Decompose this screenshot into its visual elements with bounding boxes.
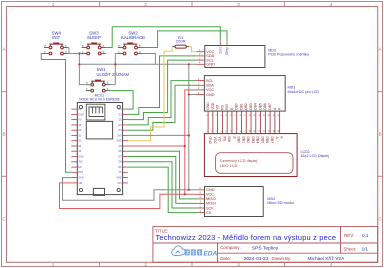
switch SW3 — [82, 43, 106, 55]
svg-text:3: 3 — [237, 2, 240, 7]
svg-text:DB0: DB0 — [235, 103, 239, 110]
EasyEDA logo text — [185, 249, 218, 257]
svg-text:1/1: 1/1 — [362, 247, 369, 252]
switch SW2 — [118, 43, 142, 55]
wire yellow MCU p7 to R1 left — [128, 47, 172, 141]
MD3 left pins — [196, 52, 204, 65]
MD1 left pin names — [206, 79, 215, 97]
svg-text:4: 4 — [330, 2, 333, 7]
MD3 pin names — [206, 50, 215, 67]
wire green MCU p3 to MD3.SCL — [128, 60, 196, 120]
svg-text:2024-01-22: 2024-01-22 — [244, 256, 269, 262]
svg-text:GND: GND — [116, 178, 121, 180]
svg-text:220R: 220R — [176, 39, 186, 44]
svg-text:2: 2 — [144, 2, 147, 7]
MD1 bottom pin names vertical — [206, 102, 282, 110]
wire green SW4.c stub — [41, 54, 71, 173]
MCU right pins — [123, 109, 128, 183]
wire green MCU p11 to MD2.SCK — [128, 162, 197, 208]
frame zone ticks left — [2, 92, 7, 177]
svg-text:SC: SC — [78, 141, 82, 143]
svg-text:3V3: 3V3 — [118, 183, 123, 185]
svg-text:SCK: SCK — [206, 206, 214, 210]
svg-text:DB5: DB5 — [258, 103, 262, 110]
wire gray GND tap to MD1 — [189, 94, 196, 96]
wire red MCU VIN to MD2.VCC — [60, 183, 198, 209]
svg-text:VO: VO — [216, 105, 220, 110]
switch SW4 — [44, 43, 68, 55]
resistor R1 — [172, 45, 189, 48]
svg-text:ULOŽIT ZÁZNAM: ULOŽIT ZÁZNAM — [97, 72, 130, 77]
module MD2 micro SD box — [205, 187, 264, 217]
svg-text:DB2: DB2 — [244, 103, 248, 110]
junction dot VCC bus bottom — [184, 193, 186, 195]
svg-text:KALIBRACE: KALIBRACE — [121, 35, 145, 40]
svg-text:VCC: VCC — [206, 193, 214, 197]
MCU mounting holes — [79, 105, 120, 191]
wire green MCU p10 to MD2.MOSI — [128, 157, 197, 204]
svg-text:DB1: DB1 — [239, 103, 243, 110]
svg-text:GND: GND — [206, 93, 215, 97]
svg-text:DB4: DB4 — [256, 137, 260, 144]
MD1 left pins — [195, 81, 204, 95]
svg-text:VU: VU — [78, 120, 82, 122]
wire gray GND rail under switches — [69, 48, 197, 65]
frame zone numbers top — [52, 2, 333, 7]
svg-text:Technowizz 2023 - Měřidlo fore: Technowizz 2023 - Měřidlo forem na výstu… — [156, 233, 337, 242]
MCU left pins — [71, 109, 77, 183]
svg-text:DB0: DB0 — [237, 137, 241, 144]
svg-text:SCL: SCL — [206, 79, 213, 83]
svg-text:SK: SK — [78, 151, 82, 153]
svg-text:SDA: SDA — [206, 84, 214, 88]
frame zone letters left — [2, 47, 6, 222]
svg-text:GND: GND — [78, 178, 83, 180]
svg-text:GND: GND — [208, 137, 212, 145]
svg-text:Sleep: Sleep — [225, 47, 229, 55]
MCU U1 NodeMCU board outline — [77, 103, 122, 195]
MD1 bottom pin numbers — [207, 113, 281, 116]
svg-text:INIT: INIT — [52, 35, 60, 40]
svg-text:Drawn By:: Drawn By: — [272, 256, 292, 261]
svg-text:SPŠ Teplice: SPŠ Teplice — [252, 244, 279, 251]
wire gray SW2.d drop to rail — [142, 54, 155, 65]
frame zone ticks top — [100, 2, 285, 7]
wire green MCU p12 to MD2.CS — [128, 167, 197, 213]
MCU left pin names — [78, 108, 83, 185]
svg-text:1: 1 — [52, 2, 55, 7]
module MD3 caliper PCB box — [205, 46, 265, 68]
svg-text:Micro SD modul: Micro SD modul — [267, 201, 293, 205]
svg-text:RS: RS — [220, 104, 224, 109]
svg-text:REV:: REV: — [344, 233, 354, 238]
frame zone letters right — [379, 47, 383, 222]
svg-text:Generický LCD displej: Generický LCD displej — [220, 159, 258, 163]
svg-text:DB5: DB5 — [260, 137, 264, 144]
junction dot rail x115 — [114, 63, 116, 65]
svg-text:0.1: 0.1 — [362, 233, 369, 238]
svg-text:Zero: Zero — [218, 47, 222, 54]
svg-text:DB4: DB4 — [254, 103, 258, 110]
junction dot GND bus MCU tap — [188, 134, 190, 136]
MCU right pin names — [116, 109, 122, 185]
svg-text:B: B — [2, 132, 5, 137]
svg-text:RX: RX — [118, 167, 122, 169]
svg-text:EN: EN — [78, 167, 82, 169]
MD2 left pins — [197, 190, 204, 213]
EasyEDA logo cloud — [172, 246, 186, 256]
wire green MCU p4 to MD1.SCL — [128, 81, 195, 125]
svg-text:16X2 LCD: 16X2 LCD — [220, 164, 238, 168]
svg-text:Company:: Company: — [220, 245, 241, 250]
svg-text:GND: GND — [78, 156, 83, 158]
svg-text:VDD: VDD — [211, 102, 215, 110]
title block border — [153, 227, 378, 263]
svg-text:3V3: 3V3 — [78, 162, 83, 164]
svg-text:NODE MCU V0.9 ESP8266: NODE MCU V0.9 ESP8266 — [79, 98, 120, 102]
wire green MCU p5 to MD1.SDA — [128, 85, 195, 130]
svg-text:GND: GND — [206, 63, 215, 67]
svg-text:VCC: VCC — [206, 88, 214, 92]
LCD1 inner screen rounded rect — [216, 153, 293, 174]
junction dot rail x79 — [78, 63, 80, 65]
MD2 pin numbers — [200, 187, 202, 213]
frame zone ticks bottom — [100, 262, 285, 266]
LCD top pin numbers — [207, 129, 281, 132]
svg-text:CS: CS — [206, 211, 212, 215]
wire green MCU p2 to MD3.SDA — [128, 56, 196, 115]
wire red tap MCU p8 to VCC bus — [128, 145, 185, 147]
wire gray tap MCU p6 to GND bus — [128, 134, 189, 136]
svg-text:EDA: EDA — [203, 251, 217, 258]
junction dot GND bus MD1 tap — [188, 93, 190, 95]
svg-text:Sheet:: Sheet: — [343, 247, 356, 252]
svg-text:GND: GND — [78, 114, 83, 116]
svg-text:GND: GND — [206, 188, 215, 192]
MD3 pin numbers — [199, 49, 201, 65]
svg-text:DB6: DB6 — [263, 103, 267, 110]
svg-text:GND: GND — [116, 141, 121, 143]
wire gray GND bus vertical to MD2 — [188, 64, 190, 190]
switch SW1 — [86, 80, 110, 92]
svg-text:2: 2 — [144, 262, 147, 267]
svg-text:RS: RS — [222, 137, 226, 142]
display LCD1 box — [204, 134, 297, 177]
svg-text:DB3: DB3 — [251, 137, 255, 144]
svg-text:RW: RW — [227, 137, 231, 143]
LCD1 top pin names vertical — [208, 137, 284, 145]
svg-text:VO: VO — [218, 137, 222, 142]
wire green Zero net MD3.Zero to SW4.c to MCU RST — [106, 27, 220, 48]
frame zone ticks right — [378, 92, 383, 177]
svg-text:DB7: DB7 — [268, 103, 272, 110]
wire green MCU p9 to MD2.MISO — [128, 151, 197, 199]
junction dot rail to GND bus — [188, 63, 190, 65]
MD2 pin names — [206, 188, 216, 215]
svg-text:DB1: DB1 — [241, 137, 245, 144]
svg-text:DB6: DB6 — [265, 137, 269, 144]
svg-text:GND: GND — [206, 102, 210, 110]
MD1 bottom pins to LCD top pins connector wires — [208, 111, 280, 134]
MCU USB connector — [93, 188, 104, 195]
svg-text:MOSI: MOSI — [206, 202, 216, 206]
svg-text:DB3: DB3 — [249, 103, 253, 110]
svg-text:TX: TX — [119, 172, 122, 174]
junction dot VCC bus MCU tap — [184, 145, 186, 147]
wire gray MD2 GND to MCU p14 — [63, 178, 198, 201]
wire gray SW3.c to SW1.a — [79, 54, 92, 85]
svg-text:B: B — [379, 132, 382, 137]
MCU shield rect — [86, 121, 112, 138]
wire yellow R1 right to MD3.VCC — [189, 47, 196, 52]
svg-text:3V3: 3V3 — [118, 135, 123, 137]
junction dot SW3.c lead — [78, 52, 80, 54]
wire green Sleep net MD3.Sleep to SW3.b — [142, 31, 227, 48]
MCU antenna meander — [86, 104, 105, 120]
MD1 left pin numbers — [198, 78, 200, 95]
svg-text:DB2: DB2 — [246, 137, 250, 144]
svg-text:MISO: MISO — [206, 197, 216, 201]
wire red VCC bus MD1.VCC to MD2.VCC — [185, 90, 196, 194]
junction dot GND bus bottom — [188, 189, 190, 191]
frame zone numbers bottom — [52, 262, 333, 267]
svg-text:DB7: DB7 — [270, 137, 274, 144]
svg-text:Date:: Date: — [220, 256, 231, 261]
svg-text:Modul I2C pro LCD: Modul I2C pro LCD — [288, 90, 320, 94]
module MD1 I2C LCD backpack box — [204, 76, 285, 112]
svg-text:1: 1 — [52, 262, 55, 267]
svg-text:16x2 LCD Displej: 16x2 LCD Displej — [301, 154, 330, 158]
svg-text:VIN: VIN — [78, 183, 82, 185]
svg-text:RW: RW — [225, 103, 229, 109]
svg-text:Michael Kříž V2A: Michael Kříž V2A — [308, 256, 346, 262]
svg-text:SLEEP: SLEEP — [87, 35, 101, 40]
svg-text:RST: RST — [78, 172, 83, 174]
wire gray SW2.c to SW1.b — [110, 54, 118, 85]
MD3 top pins Zero Sleep — [220, 41, 227, 45]
wire green SW1.d to MCU D0 — [110, 91, 133, 110]
svg-text:PCB Posuvného měřítka: PCB Posuvného měřítka — [268, 53, 309, 57]
svg-text:VCC: VCC — [213, 137, 217, 145]
